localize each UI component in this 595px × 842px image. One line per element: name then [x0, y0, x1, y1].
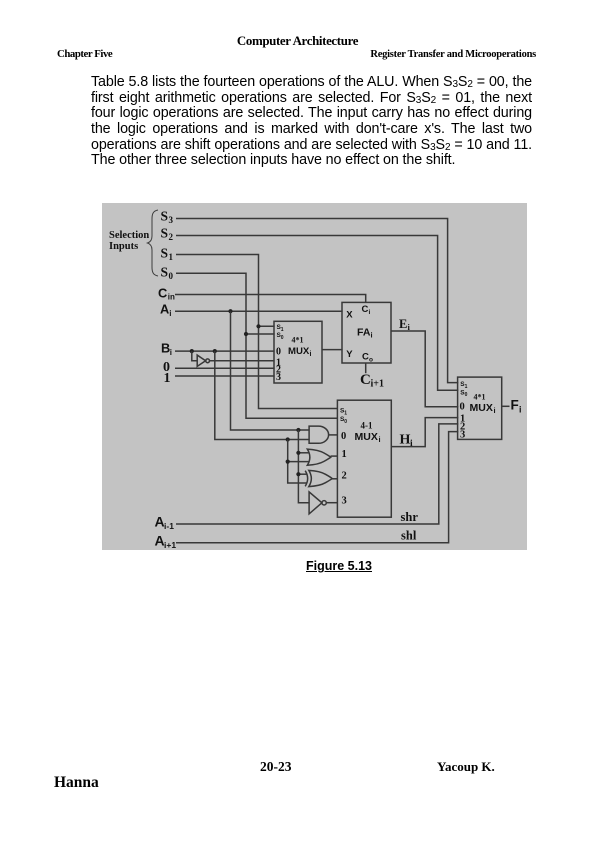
- svg-text:C: C: [362, 351, 369, 362]
- junction Ai AND branch: [296, 428, 300, 432]
- label Bi: [161, 341, 172, 358]
- wire OR output to MUX2 input 1: [331, 455, 339, 457]
- svg-text:shl: shl: [401, 529, 417, 543]
- svg-text:Selection: Selection: [109, 230, 149, 241]
- label Ei: [399, 317, 411, 332]
- MUX1 pin label 1: [276, 358, 281, 369]
- label S1: [161, 246, 174, 263]
- MUX1 name label: [288, 346, 312, 358]
- svg-text:i: i: [379, 435, 381, 444]
- label constant 1: [164, 371, 171, 386]
- or gate A OR B: [307, 449, 331, 465]
- wire Ai to FA X input: [175, 310, 343, 312]
- FA pin label Ci: [362, 304, 371, 316]
- wire shr Ai-1 to MUX3 input 2: [176, 424, 458, 524]
- junction Ai OR branch: [296, 451, 300, 455]
- header left: [57, 48, 112, 60]
- svg-text:i: i: [494, 406, 496, 415]
- svg-text:E: E: [399, 317, 407, 331]
- MUX3 pin label 2: [460, 422, 465, 433]
- svg-text:3: 3: [169, 215, 174, 225]
- svg-text:1: 1: [281, 327, 284, 333]
- FA pin label Y: [346, 349, 353, 360]
- wire Bi to inverter input: [192, 351, 198, 361]
- svg-text:Inputs: Inputs: [109, 241, 138, 252]
- svg-text:MUX: MUX: [355, 431, 378, 443]
- svg-text:0: 0: [341, 431, 346, 442]
- MUX1 pin label 2: [276, 365, 281, 376]
- svg-text:C: C: [360, 372, 371, 388]
- svg-text:S: S: [161, 209, 169, 224]
- MUX3 pin label S1: [460, 381, 467, 390]
- wire Bi branch to OR lower input: [288, 461, 310, 463]
- label shr: [401, 510, 419, 524]
- inverter for Bi complement: [197, 355, 209, 366]
- svg-text:1: 1: [465, 384, 468, 390]
- FA carry out stub: [365, 363, 367, 373]
- MUX2 pin label S0: [340, 416, 347, 425]
- junction Bi OR branch: [286, 460, 290, 464]
- MUX1 pin label S0: [277, 332, 284, 341]
- svg-text:3: 3: [276, 372, 281, 383]
- wire inverter output to MUX1 input 1: [210, 360, 275, 362]
- label Ci+1: [360, 372, 384, 390]
- svg-text:1: 1: [169, 252, 174, 262]
- label constant 0: [163, 360, 170, 375]
- wire Cin to FA carry input: [175, 295, 366, 304]
- junction Ai branch: [228, 309, 232, 313]
- junction Bi down branch: [213, 349, 217, 353]
- label S2: [161, 226, 174, 243]
- label Ai: [160, 302, 171, 319]
- wire shl Ai+1 to MUX3 input 3: [176, 432, 458, 543]
- svg-text:X: X: [346, 310, 353, 321]
- wire Ai down to AND gate: [231, 311, 310, 430]
- svg-text:i-1: i-1: [164, 521, 174, 531]
- MUX3 pin label 1: [460, 414, 465, 425]
- svg-text:i: i: [310, 351, 312, 358]
- footer author: [437, 760, 495, 774]
- label Ai+1: [155, 532, 177, 550]
- svg-text:S: S: [161, 265, 169, 280]
- svg-text:i+1: i+1: [164, 540, 176, 550]
- svg-text:0: 0: [465, 392, 468, 398]
- wire Ei to MUX3 input 0: [391, 331, 458, 407]
- brace for selection inputs: [148, 210, 159, 276]
- svg-text:in: in: [168, 293, 175, 302]
- wire S2 to MUX3 select S0: [176, 236, 458, 391]
- wire NOT output to MUX2 input 3: [326, 502, 338, 504]
- wire Bi to MUX1 input 0: [175, 350, 275, 352]
- label Cin: [158, 286, 175, 302]
- and gate A AND B: [309, 426, 328, 443]
- MUX3 pin label 0: [460, 402, 465, 413]
- wire Hi MUX2 output to MUX3 input 1: [391, 418, 458, 447]
- label shl: [401, 529, 417, 543]
- wire S3 to MUX3 select S1: [176, 219, 458, 383]
- FA name label: [357, 326, 373, 339]
- junction S1 branch: [256, 324, 260, 328]
- wire Ai gate bus down to NOT input: [298, 430, 309, 503]
- wire Bi gate bus to XOR lower input: [288, 440, 307, 484]
- label Selection Inputs: [109, 230, 149, 252]
- wire S1 branch to MUX1: [259, 325, 275, 327]
- svg-text:4*1: 4*1: [474, 393, 486, 402]
- svg-text:2: 2: [342, 471, 347, 482]
- MUX1 pin label 3: [276, 372, 281, 383]
- svg-text:i: i: [169, 309, 171, 318]
- svg-text:S: S: [161, 246, 169, 261]
- svg-text:4-1: 4-1: [361, 421, 373, 431]
- svg-text:FA: FA: [357, 326, 371, 338]
- svg-text:C: C: [158, 286, 167, 301]
- figure: ALU bit-slice circuit schematic: [102, 203, 527, 550]
- header right: [0, 49, 536, 61]
- svg-text:shr: shr: [401, 510, 419, 524]
- label S3: [161, 209, 174, 226]
- MUX2 pin label S1: [340, 408, 347, 417]
- svg-text:2: 2: [169, 232, 174, 242]
- svg-text:i: i: [170, 348, 172, 357]
- wire constant 1 to MUX1 input 3: [175, 375, 275, 377]
- FA pin label Co: [362, 351, 373, 363]
- svg-text:1: 1: [342, 449, 347, 460]
- wire XOR output to MUX2 input 2: [332, 478, 338, 480]
- label Hi: [400, 432, 414, 449]
- full adder FAi: [342, 302, 391, 363]
- mux MUX2 (logic select 4x1): [337, 400, 391, 517]
- MUX3 pin label 3: [460, 430, 465, 441]
- MUX2 pin label 1: [342, 449, 347, 460]
- svg-text:4*1: 4*1: [292, 336, 304, 345]
- MUX2 name label: [355, 431, 381, 444]
- wire MUX1 output to FA Y input: [322, 349, 343, 351]
- svg-text:0: 0: [281, 335, 284, 341]
- MUX2 pin label 0: [341, 431, 346, 442]
- label Ai-1: [155, 514, 175, 532]
- wire MUX3 output Fi: [502, 405, 510, 407]
- svg-text:MUX: MUX: [288, 346, 310, 357]
- svg-text:Y: Y: [346, 349, 353, 360]
- svg-text:0: 0: [169, 271, 174, 281]
- svg-text:3: 3: [342, 495, 347, 506]
- MUX1 pin label 0: [276, 346, 281, 357]
- svg-text:i: i: [369, 309, 371, 316]
- wire Bi down to AND gate lower input: [215, 351, 310, 439]
- MUX3 name label: [470, 402, 496, 415]
- MUX3 size label 4*1: [474, 393, 486, 402]
- svg-text:3: 3: [460, 430, 465, 441]
- junction Bi gate bus: [286, 437, 290, 441]
- svg-text:C: C: [362, 304, 369, 315]
- xor gate A XOR B: [305, 470, 332, 486]
- svg-text:o: o: [369, 356, 373, 363]
- junction S0 branch: [244, 332, 248, 336]
- wire S0 to MUX2 select S0: [176, 273, 338, 418]
- svg-text:A: A: [160, 302, 169, 317]
- junction Bi inverter branch: [190, 349, 194, 353]
- mux MUX3 (function select 4x1): [458, 377, 502, 439]
- wire AND output to MUX2 input 0: [329, 434, 338, 436]
- svg-text:i: i: [519, 405, 522, 415]
- wire constant 0 to MUX1 input 2: [175, 367, 275, 369]
- wire Ai branch to XOR input: [298, 473, 306, 475]
- MUX3 pin label S0: [460, 389, 467, 398]
- svg-text:F: F: [511, 398, 519, 413]
- label Fi: [511, 398, 522, 415]
- svg-text:0: 0: [460, 402, 465, 413]
- svg-text:1: 1: [344, 410, 347, 416]
- svg-text:MUX: MUX: [470, 402, 493, 414]
- MUX1 size label 4*1: [292, 336, 304, 345]
- junction Ai XOR branch: [296, 472, 300, 476]
- MUX2 pin label 3: [342, 495, 347, 506]
- footer name: [54, 775, 99, 791]
- svg-text:1: 1: [164, 371, 171, 386]
- mux MUX1 (arithmetic input select 4x1): [274, 321, 322, 383]
- label S0: [161, 265, 174, 282]
- header center title: [0, 35, 595, 48]
- wire S0 branch to MUX1: [246, 333, 275, 335]
- footer page number: [260, 760, 292, 774]
- svg-text:i: i: [371, 330, 373, 339]
- MUX2 pin label 2: [342, 471, 347, 482]
- svg-text:0: 0: [276, 346, 281, 357]
- figure caption: [306, 559, 372, 573]
- svg-text:H: H: [400, 432, 411, 447]
- MUX1 pin label S1: [277, 324, 284, 333]
- FA pin label X: [346, 310, 353, 321]
- svg-text:0: 0: [344, 419, 347, 425]
- svg-text:i: i: [410, 439, 413, 449]
- body paragraph: [91, 75, 532, 169]
- not gate for Ai complement: [309, 492, 326, 514]
- svg-text:S: S: [161, 226, 169, 241]
- wire Ai branch to OR input: [298, 452, 309, 454]
- wire S1 to MUX2 select S1: [176, 255, 338, 409]
- svg-text:i+1: i+1: [371, 379, 384, 390]
- MUX2 size label 4-1: [361, 421, 373, 431]
